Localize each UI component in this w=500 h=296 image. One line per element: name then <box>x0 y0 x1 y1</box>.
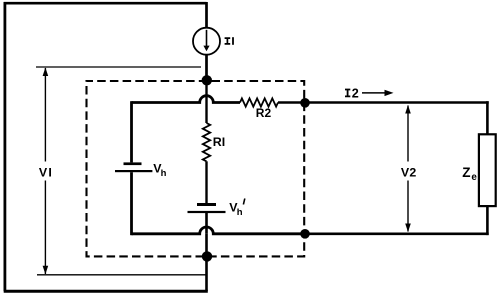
svg-text:h: h <box>237 207 243 218</box>
dimension reference line bottom (V1) <box>37 274 207 276</box>
battery Vh' long plate <box>188 211 226 213</box>
dimension arrow V2 <box>407 106 409 162</box>
svg-text:2: 2 <box>352 86 359 100</box>
node: right bottom terminal dot <box>300 229 310 239</box>
label I2 <box>345 90 350 97</box>
dimension arrow V1 <box>44 68 46 162</box>
dimension reference line top (V1) <box>36 66 201 68</box>
current source I1 <box>193 28 220 55</box>
svg-text:I: I <box>222 135 225 149</box>
battery Vh long plate <box>115 170 152 172</box>
svg-text:V: V <box>39 166 48 180</box>
svg-text:2: 2 <box>409 166 416 180</box>
wire: load right vertical bottom <box>486 206 489 235</box>
wire: left branch vertical bottom <box>130 172 133 235</box>
wire: inner bottom wire with hop over main vertical <box>132 227 306 234</box>
wire: R2 to right node <box>278 101 305 104</box>
wire: left branch vertical (Vh branch) top <box>130 101 133 162</box>
wire: R1 to battery Vh' <box>205 161 207 203</box>
node: top terminal dot <box>202 75 212 85</box>
current arrow I2 <box>362 92 390 94</box>
wire: outer loop left <box>4 2 7 291</box>
wire: outer loop top <box>4 2 207 5</box>
svg-text:Z: Z <box>462 165 470 180</box>
resistor R1 <box>203 123 210 161</box>
load Ze box <box>479 134 496 206</box>
wire: battery Vh' to bottom crossing <box>205 213 208 234</box>
wire: bottom node to outer loop bottom <box>205 256 208 291</box>
wire: right bottom node to load bottom corner <box>305 233 489 236</box>
wire: load right vertical top <box>486 101 489 134</box>
svg-text:e: e <box>471 172 477 183</box>
wire: inner top wire with hop over main vertical <box>132 96 241 103</box>
wire: main vertical from top corner to current source <box>205 2 208 28</box>
battery Vh' short plate <box>197 203 216 206</box>
wire: main vertical, current source to top node <box>205 55 208 80</box>
node: bottom terminal dot <box>202 251 212 261</box>
svg-text:R: R <box>213 135 222 149</box>
resistor R2 <box>240 98 278 106</box>
node: right top terminal dot <box>300 98 310 108</box>
svg-text:I: I <box>48 166 51 180</box>
svg-text:R2: R2 <box>256 106 272 120</box>
wire: right node to load top corner <box>305 101 489 104</box>
wire: main vertical, crossing to bottom node <box>205 234 208 257</box>
wire: outer loop bottom <box>4 290 208 293</box>
wire: main vertical, top node to R1 <box>205 80 207 123</box>
svg-text:h: h <box>161 168 167 179</box>
label I1 <box>225 38 231 44</box>
dashed network boundary box <box>87 81 305 256</box>
battery Vh short plate <box>124 162 142 165</box>
